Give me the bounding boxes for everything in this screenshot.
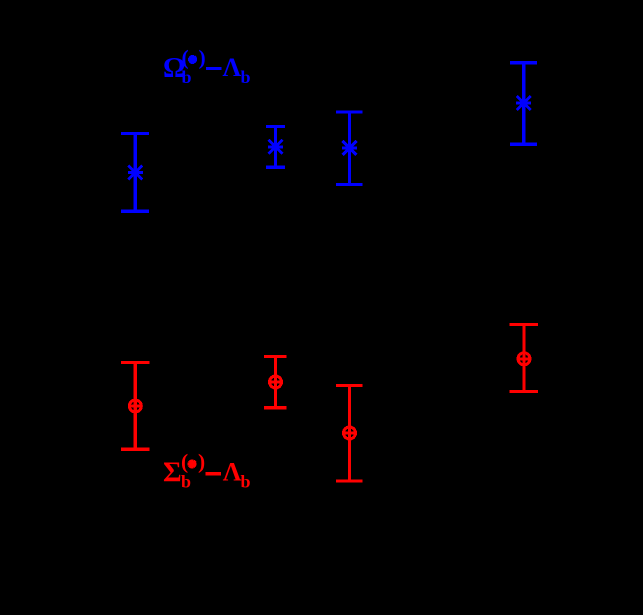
red circle-plus marker M-R3	[343, 426, 357, 440]
svg-text:): )	[199, 45, 206, 69]
red circle-plus marker M-R1	[128, 399, 142, 413]
blue asterisk marker M-B2	[268, 139, 283, 154]
blue asterisk marker M-B3	[342, 141, 357, 156]
blue error bar B3	[336, 112, 363, 185]
red label Sigma_b^(*) minus Lambda_b	[163, 450, 251, 492]
svg-text:Λ: Λ	[223, 53, 242, 82]
blue asterisk marker M-B1	[128, 165, 143, 180]
svg-text:b: b	[241, 471, 251, 491]
svg-text:Λ: Λ	[223, 458, 242, 487]
blue label Omega_b^(*) minus Lambda_b	[163, 45, 251, 87]
red error bar R2	[264, 357, 287, 408]
svg-text:(: (	[181, 450, 188, 474]
blue error bar B2	[266, 127, 285, 168]
red error bar R1	[121, 363, 150, 450]
red error bar R4	[510, 325, 538, 392]
svg-text:b: b	[241, 67, 251, 87]
svg-text:b: b	[181, 472, 191, 492]
svg-text:b: b	[182, 67, 192, 87]
svg-text:(: (	[182, 45, 189, 69]
blue error bar B1	[121, 134, 149, 212]
blue asterisk marker M-B4	[516, 96, 531, 111]
red circle-plus marker M-R2	[269, 375, 283, 389]
red circle-plus marker M-R4	[517, 352, 531, 366]
red error bar R3	[336, 386, 362, 482]
svg-text:Σ: Σ	[163, 457, 182, 488]
svg-text:): )	[198, 450, 205, 474]
blue error bar B4	[510, 63, 537, 145]
